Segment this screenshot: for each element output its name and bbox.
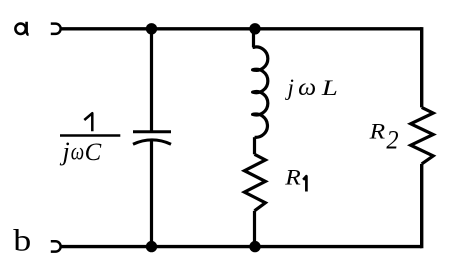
junction dot top-middle node [249,23,260,34]
value label R1 subscript 1 [303,176,306,191]
capacitor C bottom curved plate [133,140,171,144]
svg-text:b: b [13,224,31,258]
wire inductor branch top stub [251,29,255,48]
svg-text:2: 2 [386,125,398,154]
terminal b open circle [51,241,61,251]
svg-text:C: C [85,139,102,166]
wire top horizontal from terminal a to top-right corner [62,27,422,30]
resistor R2 zigzag [411,107,434,163]
junction dot top-left node [146,23,157,34]
junction dot bottom-middle node [249,241,260,252]
svg-text:ω: ω [298,75,316,101]
capacitor C top plate [133,130,171,133]
svg-text:L: L [321,75,338,100]
value label 1/jwC numerator 1 [84,113,92,131]
wire capacitor branch lower [150,140,153,247]
svg-text:R: R [368,119,385,144]
terminal a open circle [51,24,61,34]
node label a [27,22,29,35]
wire between L and R1 [253,137,256,154]
wire right branch lower segment [420,164,423,248]
wire capacitor branch upper [150,29,153,132]
wire right branch upper segment [420,27,423,107]
svg-text:j: j [60,137,70,166]
junction dot bottom-left node [146,241,157,252]
resistor R1 zigzag [244,154,265,211]
value label 1/jwC fraction bar [60,134,120,137]
inductor L coil [253,47,268,137]
wire bottom horizontal from terminal b to bottom-right corner [62,245,422,248]
svg-text:R: R [284,165,301,190]
svg-text:ω: ω [71,140,84,166]
wire below R1 [253,211,256,247]
svg-text:j: j [285,75,294,100]
